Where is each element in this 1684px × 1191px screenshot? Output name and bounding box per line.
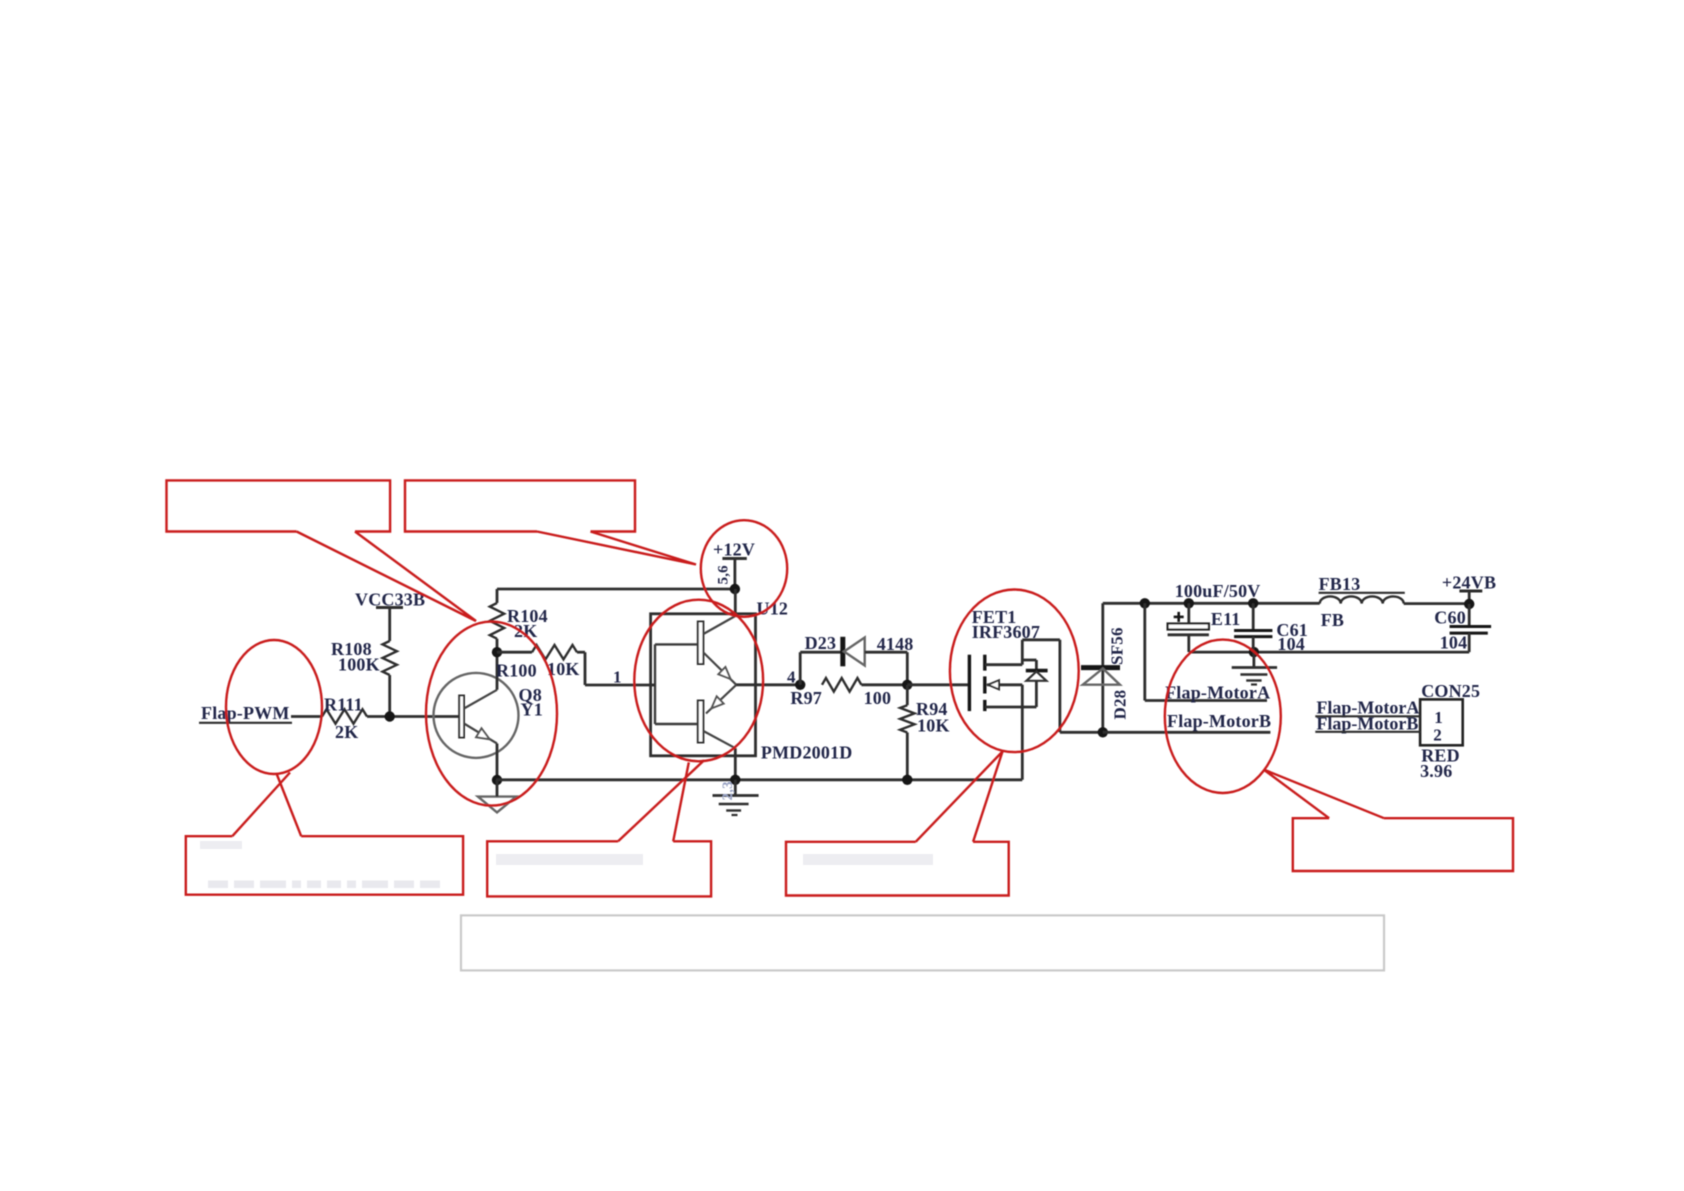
svg-text:1: 1: [1434, 708, 1443, 727]
svg-text:SF56: SF56: [1108, 627, 1127, 665]
svg-text:100uF/50V: 100uF/50V: [1175, 581, 1261, 601]
svg-text:PMD2001D: PMD2001D: [761, 743, 853, 763]
svg-text:R111: R111: [324, 695, 363, 715]
svg-text:4: 4: [787, 668, 796, 687]
svg-text:D23: D23: [805, 633, 837, 653]
svg-text:5,6: 5,6: [716, 565, 732, 585]
svg-text:Flap-PWM: Flap-PWM: [201, 703, 290, 723]
svg-text:FB: FB: [1321, 610, 1344, 630]
svg-text:3.96: 3.96: [1420, 761, 1452, 781]
svg-text:FB13: FB13: [1319, 574, 1361, 594]
svg-text:100K: 100K: [338, 655, 380, 675]
svg-text:C60: C60: [1434, 608, 1466, 628]
svg-text:CON25: CON25: [1421, 681, 1480, 701]
svg-text:10K: 10K: [917, 716, 950, 736]
svg-text:Flap-MotorB: Flap-MotorB: [1167, 711, 1271, 731]
svg-text:2: 2: [1433, 726, 1442, 745]
svg-text:E11: E11: [1211, 609, 1241, 629]
svg-text:100: 100: [864, 688, 892, 708]
svg-text:2K: 2K: [514, 621, 537, 641]
svg-text:U12: U12: [757, 599, 789, 619]
svg-text:R100: R100: [496, 661, 537, 681]
svg-text:D28: D28: [1111, 690, 1130, 720]
svg-text:104: 104: [1277, 634, 1305, 654]
svg-text:1: 1: [613, 668, 622, 687]
svg-text:2K: 2K: [335, 722, 358, 742]
svg-text:Y1: Y1: [521, 700, 543, 720]
svg-text:4148: 4148: [877, 634, 914, 654]
svg-text:Flap-MotorB: Flap-MotorB: [1316, 714, 1418, 734]
svg-text:R97: R97: [790, 688, 822, 708]
svg-text:+12V: +12V: [713, 540, 755, 560]
svg-text:104: 104: [1440, 633, 1468, 653]
svg-text:2,3: 2,3: [720, 781, 736, 800]
